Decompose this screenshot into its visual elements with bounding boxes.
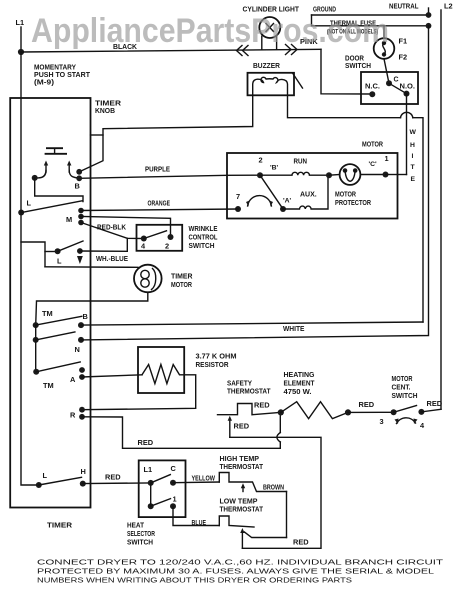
node ground / neutral bus bbox=[312, 5, 432, 29]
svg-text:2: 2 bbox=[165, 242, 169, 251]
resistor 3.77 K OHM bbox=[82, 347, 237, 410]
svg-text:RESISTOR: RESISTOR bbox=[196, 360, 230, 369]
svg-text:THERMOSTAT: THERMOSTAT bbox=[220, 462, 264, 471]
svg-text:B: B bbox=[75, 182, 80, 191]
svg-text:L1: L1 bbox=[16, 18, 25, 27]
svg-text:N: N bbox=[75, 345, 80, 354]
fuse thermal F1-F2 bbox=[327, 19, 407, 84]
svg-text:C: C bbox=[171, 464, 177, 473]
buzzer bbox=[248, 61, 303, 95]
svg-text:CONNECT DRYER TO 120/240 V.A.C: CONNECT DRYER TO 120/240 V.A.C.,60 HZ. I… bbox=[37, 558, 444, 567]
inductor aux winding bbox=[283, 172, 332, 209]
svg-text:M: M bbox=[66, 215, 72, 224]
wire door switch NO down to motor (WHITE) bbox=[398, 94, 417, 183]
svg-text:NEUTRAL: NEUTRAL bbox=[389, 2, 419, 11]
svg-text:TM: TM bbox=[43, 381, 54, 390]
node B (timer start contacts) bbox=[75, 169, 83, 191]
wire M mid to wrinkle 2 bbox=[81, 217, 171, 238]
svg-text:4750 W.: 4750 W. bbox=[284, 387, 312, 396]
svg-text:3: 3 bbox=[380, 417, 384, 426]
switch timer L-M row bbox=[18, 199, 84, 226]
svg-text:N.C.: N.C. bbox=[365, 84, 380, 91]
svg-text:TIMER: TIMER bbox=[47, 521, 73, 530]
svg-text:H: H bbox=[81, 467, 86, 476]
svg-text:(M-9): (M-9) bbox=[34, 78, 55, 87]
svg-text:W: W bbox=[410, 129, 417, 136]
svg-text:WH.-BLUE: WH.-BLUE bbox=[96, 254, 128, 263]
protector motor protector bbox=[329, 154, 398, 207]
timer box bbox=[10, 98, 122, 530]
wire yellow to high temp thermostat bbox=[173, 474, 219, 483]
svg-text:A: A bbox=[70, 375, 76, 384]
wire push-start to L blade tip bbox=[35, 178, 83, 202]
switch motor internal B-A bbox=[235, 156, 292, 213]
svg-text:RED: RED bbox=[254, 401, 270, 410]
switch momentary push-to-start M-9 bbox=[32, 148, 79, 181]
svg-text:RED: RED bbox=[138, 438, 154, 447]
switch door bbox=[345, 54, 418, 105]
wire white N row to neutral riser bbox=[81, 26, 429, 340]
switch wrinkle control bbox=[137, 224, 218, 251]
inductor run winding bbox=[260, 157, 329, 176]
switch timer L-H row bbox=[36, 467, 86, 488]
svg-text:2: 2 bbox=[259, 156, 263, 165]
motor timer motor bbox=[134, 265, 193, 293]
thermostat low temp bbox=[219, 497, 286, 549]
svg-text:BUZZER: BUZZER bbox=[253, 61, 281, 70]
svg-text:F1: F1 bbox=[399, 37, 408, 46]
wire buzzer right leg to white riser (hop over door switch wire) bbox=[288, 95, 424, 322]
wire black L1 to pink corner bbox=[21, 42, 321, 52]
svg-text:E: E bbox=[411, 176, 416, 183]
svg-text:RED: RED bbox=[105, 473, 121, 482]
svg-text:MOTOR: MOTOR bbox=[171, 280, 193, 289]
switch timer TM-B row bbox=[33, 309, 88, 328]
svg-text:RED: RED bbox=[293, 538, 309, 547]
wire L1 main vertical bbox=[21, 52, 39, 485]
thermostat high temp bbox=[219, 454, 286, 492]
lamp cylinder light bbox=[243, 5, 300, 49]
wire timer motor to TM contact bbox=[36, 292, 148, 325]
svg-text:H: H bbox=[410, 142, 415, 149]
svg-text:RED: RED bbox=[359, 400, 375, 409]
node R contacts bbox=[70, 407, 85, 420]
svg-text:F2: F2 bbox=[399, 53, 408, 62]
svg-text:L: L bbox=[57, 257, 62, 266]
switch timer L-W row bbox=[21, 241, 83, 267]
svg-text:MOTOR: MOTOR bbox=[362, 140, 384, 149]
svg-text:SWITCH: SWITCH bbox=[392, 391, 418, 400]
svg-text:SWITCH: SWITCH bbox=[189, 241, 215, 250]
wire red element to cent switch bbox=[348, 400, 394, 412]
wire blue to low temp thermostat bbox=[173, 506, 219, 527]
svg-text:I: I bbox=[412, 153, 414, 160]
svg-text:WHITE: WHITE bbox=[283, 324, 305, 333]
switch motor centrifugal bbox=[380, 374, 443, 430]
wire pink to door switch NC bbox=[300, 37, 372, 94]
svg-text:R: R bbox=[70, 411, 76, 420]
svg-text:L2: L2 bbox=[444, 2, 453, 11]
wire red return to safety thermostat bbox=[228, 416, 321, 549]
svg-text:THERMOSTAT: THERMOSTAT bbox=[220, 505, 264, 514]
svg-text:THERMOSTAT: THERMOSTAT bbox=[227, 387, 271, 396]
svg-text:L1: L1 bbox=[144, 465, 153, 474]
svg-text:L: L bbox=[27, 199, 32, 208]
switch heat selector bbox=[127, 460, 186, 546]
svg-text:SWITCH: SWITCH bbox=[345, 61, 371, 70]
svg-text:RED: RED bbox=[234, 422, 250, 431]
node L1 bbox=[16, 18, 25, 55]
wire red R to heating junction bbox=[82, 412, 280, 448]
svg-text:'B': 'B' bbox=[270, 165, 279, 172]
motor box bbox=[227, 140, 398, 219]
switch timer TM-A row bbox=[33, 362, 85, 390]
wire white B row to buzzer riser bbox=[81, 322, 423, 325]
wire purple timer B to motor bbox=[79, 165, 260, 179]
svg-text:'C': 'C' bbox=[369, 161, 378, 168]
label momentary push to start bbox=[34, 63, 90, 87]
svg-text:BROWN: BROWN bbox=[263, 483, 284, 492]
svg-text:YELLOW: YELLOW bbox=[192, 474, 216, 483]
resistor heating element 4750W bbox=[278, 370, 351, 419]
wire W contact to wrinkle riser bbox=[80, 238, 128, 263]
switch timer TM-N row bbox=[33, 325, 84, 372]
svg-text:'A': 'A' bbox=[283, 198, 292, 205]
label connect dryer fine print bbox=[37, 558, 444, 585]
svg-text:PURPLE: PURPLE bbox=[145, 165, 170, 174]
wire red-blk M to wrinkle 4 bbox=[81, 223, 144, 239]
svg-text:ORANGE: ORANGE bbox=[148, 199, 171, 208]
svg-text:L: L bbox=[43, 471, 48, 480]
svg-text:NUMBERS WHEN WRITING ABOUT THI: NUMBERS WHEN WRITING ABOUT THIS DRYER OR… bbox=[37, 576, 352, 585]
connector chevrons right bbox=[286, 45, 298, 55]
svg-text:PROTECTED BY MAXIMUM 30 A. FUS: PROTECTED BY MAXIMUM 30 A. FUSES. ALWAYS… bbox=[37, 567, 434, 576]
wire red H to heat selector bbox=[83, 473, 151, 484]
svg-text:KNOB: KNOB bbox=[95, 106, 115, 115]
svg-text:7: 7 bbox=[236, 192, 240, 201]
wire orange M to motor 7 bbox=[81, 199, 238, 211]
svg-text:C: C bbox=[394, 77, 399, 84]
svg-text:B: B bbox=[83, 312, 88, 321]
svg-text:RED: RED bbox=[427, 399, 443, 408]
svg-text:1: 1 bbox=[173, 495, 177, 504]
svg-text:PROTECTOR: PROTECTOR bbox=[335, 198, 372, 207]
wire L row to timer motor bbox=[45, 266, 138, 269]
svg-text:AppliancePartsPros.com: AppliancePartsPros.com bbox=[31, 12, 389, 50]
svg-text:TM: TM bbox=[42, 309, 53, 318]
svg-text:N.O.: N.O. bbox=[400, 84, 416, 91]
thermostat safety bbox=[218, 379, 281, 415]
svg-text:SWITCH: SWITCH bbox=[127, 538, 153, 547]
wire L2 vertical bbox=[440, 10, 442, 409]
svg-text:1: 1 bbox=[385, 154, 389, 163]
svg-text:RUN: RUN bbox=[294, 157, 308, 166]
connector chevrons left bbox=[237, 46, 249, 56]
wire brown down bbox=[263, 483, 287, 538]
svg-text:AUX.: AUX. bbox=[300, 192, 317, 199]
wire buzzer left leg to push-start B bbox=[79, 95, 253, 172]
